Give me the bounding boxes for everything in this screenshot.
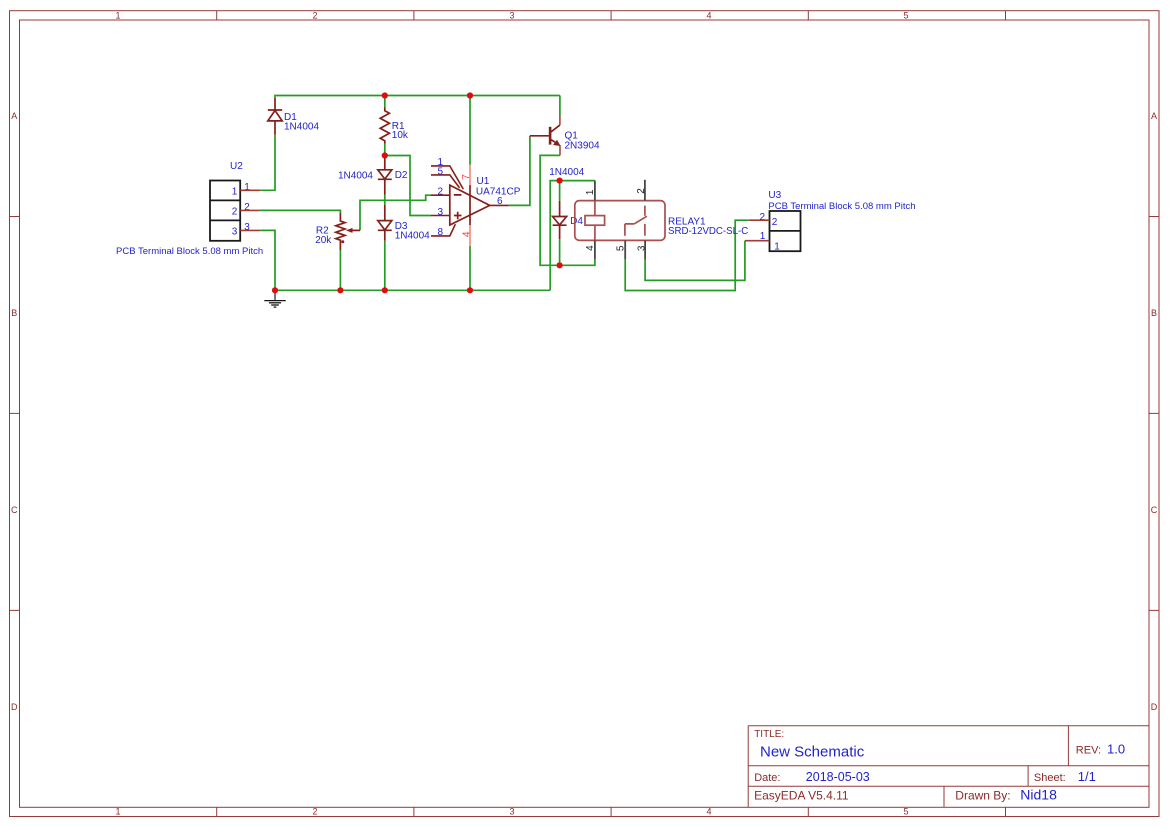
wire Q1 emitter to D4 bottom and relay pin4 xyxy=(540,155,595,265)
U2 pin numbers xyxy=(232,182,251,238)
wire R1 bottom to node xyxy=(384,144,386,156)
svg-text:3: 3 xyxy=(437,207,443,218)
U2 pin stubs xyxy=(240,190,260,230)
wire D4 top lead xyxy=(559,181,561,201)
svg-text:1/1: 1/1 xyxy=(1078,769,1096,784)
relay RELAY1 body xyxy=(575,201,665,241)
svg-text:5: 5 xyxy=(903,807,908,817)
diode D4 xyxy=(553,201,567,240)
svg-text:1N4004: 1N4004 xyxy=(395,231,430,242)
diode D2 xyxy=(378,156,392,195)
svg-text:2: 2 xyxy=(244,202,250,213)
svg-text:2018-05-03: 2018-05-03 xyxy=(806,770,870,784)
wire D4 bottom lead xyxy=(559,239,561,265)
wire op-amp pin7 to top rail xyxy=(469,96,471,165)
svg-text:B: B xyxy=(1151,308,1157,318)
svg-text:1: 1 xyxy=(760,231,766,242)
svg-text:2: 2 xyxy=(760,212,766,223)
ground xyxy=(264,290,285,307)
svg-text:A: A xyxy=(11,111,17,121)
svg-text:1: 1 xyxy=(232,187,238,198)
svg-text:1: 1 xyxy=(115,807,120,817)
svg-text:5: 5 xyxy=(616,245,627,251)
svg-text:U3: U3 xyxy=(768,190,781,201)
diode D1 xyxy=(268,98,282,135)
svg-text:1: 1 xyxy=(585,189,596,195)
op-amp minus input marker xyxy=(454,194,462,196)
svg-text:PCB Terminal Block 5.08 mm Pit: PCB Terminal Block 5.08 mm Pitch xyxy=(116,246,263,257)
potentiometer R2 xyxy=(336,213,360,250)
svg-text:D: D xyxy=(11,702,18,712)
wire node to op-amp pin3 xyxy=(385,156,431,216)
svg-text:C: C xyxy=(1151,505,1158,515)
svg-text:Nid18: Nid18 xyxy=(1020,787,1057,803)
U3 pin stubs xyxy=(745,220,770,241)
svg-text:U1: U1 xyxy=(477,176,490,187)
title block xyxy=(748,726,1149,808)
relay pin lines xyxy=(595,180,645,260)
svg-text:5: 5 xyxy=(437,166,443,177)
svg-text:D: D xyxy=(1151,702,1158,712)
svg-text:B: B xyxy=(11,308,17,318)
op-amp pin numbers xyxy=(437,157,443,238)
svg-text:1.0: 1.0 xyxy=(1107,742,1125,757)
relay pin numbers xyxy=(585,188,647,251)
svg-text:C: C xyxy=(11,505,18,515)
svg-text:REV:: REV: xyxy=(1076,744,1101,756)
wire U2 pin3 to ground rail xyxy=(260,230,275,290)
svg-text:3: 3 xyxy=(509,11,514,21)
op-amp U1 xyxy=(431,166,509,236)
svg-text:2: 2 xyxy=(437,187,443,198)
wire R2 bottom to ground rail xyxy=(339,250,341,290)
transistor Q1 xyxy=(530,116,560,156)
terminal block U3 xyxy=(770,211,801,251)
svg-text:2: 2 xyxy=(312,11,317,21)
svg-text:2: 2 xyxy=(772,217,778,228)
junction ground rail / op-amp pin4 xyxy=(467,287,473,293)
svg-text:1: 1 xyxy=(244,182,250,193)
wire D3 bottom to ground rail xyxy=(384,241,386,290)
svg-text:EasyEDA V5.4.11: EasyEDA V5.4.11 xyxy=(754,789,849,803)
svg-text:SRD-12VDC-SL-C: SRD-12VDC-SL-C xyxy=(668,226,748,237)
op-amp pin 7 line xyxy=(469,165,471,185)
svg-text:2N3904: 2N3904 xyxy=(565,140,600,151)
svg-text:TITLE:: TITLE: xyxy=(754,729,784,740)
wire relay pin5 to U3 pin2 xyxy=(625,220,749,290)
junction ground node xyxy=(272,287,278,293)
svg-text:Drawn By:: Drawn By: xyxy=(955,789,1010,803)
svg-text:3: 3 xyxy=(244,222,250,233)
svg-text:1N4004: 1N4004 xyxy=(284,121,319,132)
svg-text:10k: 10k xyxy=(392,130,409,141)
svg-text:D4: D4 xyxy=(570,216,583,227)
svg-text:3: 3 xyxy=(509,807,514,817)
svg-text:1N4004: 1N4004 xyxy=(338,170,373,181)
R2 wiper arrow xyxy=(346,228,353,233)
svg-text:Sheet:: Sheet: xyxy=(1034,772,1066,784)
wire bottom ground rail xyxy=(275,289,550,291)
U3 pin numbers xyxy=(760,212,781,252)
junction R1 / D2 node xyxy=(382,152,388,158)
svg-text:3: 3 xyxy=(637,245,648,251)
wire top rail to Q1 collector xyxy=(559,96,561,116)
svg-text:2: 2 xyxy=(232,207,238,218)
svg-text:D2: D2 xyxy=(395,170,408,181)
wire U2 pin1 to D1 xyxy=(260,135,275,191)
svg-text:5: 5 xyxy=(903,11,908,21)
wire relay pin3 to U3 pin1 xyxy=(645,241,745,281)
op-amp pin 4 line xyxy=(469,225,471,246)
svg-text:1: 1 xyxy=(774,241,780,252)
junction ground rail / D3 xyxy=(382,287,388,293)
op-amp plus input marker xyxy=(454,212,462,220)
wire U2 pin2 to R2 top xyxy=(259,210,340,212)
junction ground rail / R2 xyxy=(337,287,343,293)
svg-text:PCB Terminal Block 5.08 mm Pit: PCB Terminal Block 5.08 mm Pitch xyxy=(768,201,915,212)
diode D3 xyxy=(378,205,392,241)
svg-text:4: 4 xyxy=(706,11,711,21)
svg-text:1N4004: 1N4004 xyxy=(549,167,584,178)
svg-text:New Schematic: New Schematic xyxy=(760,744,865,761)
wire op-amp pin4 to ground rail xyxy=(469,246,471,291)
svg-text:6: 6 xyxy=(497,196,503,207)
junction D4 top / relay pin1 node xyxy=(557,178,563,184)
wire top power rail xyxy=(275,96,560,98)
wire ground rail up to relay pin1 node xyxy=(550,181,595,291)
svg-text:2: 2 xyxy=(312,807,317,817)
wire R2 wiper to op-amp pin2 xyxy=(360,195,431,230)
svg-text:U2: U2 xyxy=(230,161,243,172)
svg-text:2: 2 xyxy=(636,188,647,194)
svg-text:4: 4 xyxy=(585,245,596,251)
junction top rail / op-amp pin7 xyxy=(467,92,473,98)
svg-text:Date:: Date: xyxy=(754,772,780,784)
svg-text:A: A xyxy=(1151,111,1157,121)
junction D4 bottom / relay pin4 node xyxy=(557,262,563,268)
junction top rail / R1 xyxy=(382,92,388,98)
svg-text:4: 4 xyxy=(460,231,472,237)
svg-text:20k: 20k xyxy=(315,235,332,246)
wire R1 top xyxy=(384,96,386,108)
svg-text:1: 1 xyxy=(115,11,120,21)
terminal block U2 xyxy=(210,181,240,241)
svg-text:7: 7 xyxy=(460,174,472,180)
resistor R1 xyxy=(380,108,389,144)
wire op-amp output to Q1 base xyxy=(509,136,530,206)
svg-text:8: 8 xyxy=(437,227,443,238)
wire D2 to D3 xyxy=(384,195,386,205)
svg-text:4: 4 xyxy=(706,807,711,817)
svg-text:3: 3 xyxy=(232,227,238,238)
svg-text:UA741CP: UA741CP xyxy=(476,186,521,197)
